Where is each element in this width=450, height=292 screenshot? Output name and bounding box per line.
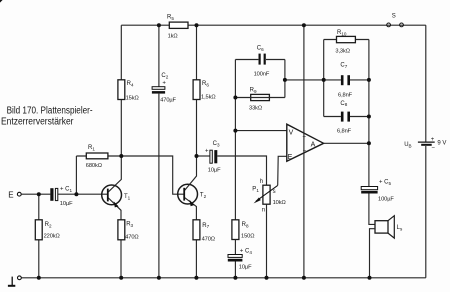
svg-text:s: s [273,189,276,195]
wire feedback network right rail [368,40,370,187]
wire C4 to ground [234,262,236,278]
svg-text:R6: R6 [202,81,209,87]
junction bottom rail R3 [119,276,123,280]
battery UB 9V [404,137,446,151]
junction R1 T1 collector node [119,154,123,158]
junction bottom rail R7 [194,276,198,280]
junction bottom rail speaker [368,276,372,280]
capacitor C1 [50,187,73,207]
junction top rail R6 [195,23,199,27]
svg-text:n: n [262,208,265,214]
capacitor C6 [254,46,270,78]
junction top rail supply [302,23,306,27]
potentiometer P1 [252,179,285,213]
transistor T1 [102,185,131,207]
svg-text:R10: R10 [337,30,347,36]
wire T2 base from T1 collector node [121,156,183,194]
wire R1 branch at node B1 [76,156,121,194]
resistor R7 [193,220,215,243]
wire C1 to T1 base [58,193,107,195]
svg-text:470µF: 470µF [160,98,176,104]
svg-text:h: h [260,179,263,185]
wire R4 / T1 collector rail [108,25,121,192]
junction E input R2 [37,192,41,196]
resistor R5 [167,15,188,40]
wire P1 wiper to op-amp inverting input [278,156,287,185]
resistor R3 [118,220,139,241]
svg-text:E: E [8,190,13,199]
terminal ground circle [18,276,22,280]
svg-text:A: A [311,142,316,149]
wire C5 to speaker upper stub [369,194,375,225]
svg-text:V: V [289,130,294,137]
junction bottom rail R2 [37,276,41,280]
wire R2 branch to ground [38,194,40,278]
wire bottom ground rail [21,277,425,279]
svg-text:+: + [205,149,209,155]
junction C6 R9 right node [283,78,287,82]
wire R8 to C4 [234,240,236,255]
wire op-amp output [324,142,369,144]
wire C3 left stub [197,155,210,157]
svg-text:E: E [288,154,293,161]
svg-text:100µF: 100µF [378,197,394,203]
wire C6 R9 left rail down to R8 [234,60,236,220]
svg-text:470Ω: 470Ω [125,235,138,241]
wire P1 n terminal to ground [266,204,268,278]
junction feedback left rail C7 [322,78,326,82]
svg-text:C2: C2 [161,73,168,79]
svg-text:C3: C3 [213,141,220,147]
svg-text:C6: C6 [257,46,264,52]
svg-text:+: + [431,137,435,143]
svg-text:470Ω: 470Ω [202,237,215,243]
caption Bild 170 [1,105,93,127]
svg-text:+ C4: + C4 [240,249,253,255]
wire op-amp supply line [303,25,305,278]
svg-text:R5: R5 [167,15,174,21]
svg-text:R7: R7 [202,223,209,229]
wire C6 branch [235,59,285,61]
resistor R8 [232,220,254,240]
wire T1 emitter to R3 to ground [108,198,121,278]
svg-text:Ls: Ls [397,225,403,231]
wire C6 R9 right rail [284,60,286,98]
capacitor C4 [228,249,253,271]
svg-text:+ C5: + C5 [379,179,392,185]
capacitor C8 [337,101,352,135]
capacitor C5 [361,179,394,202]
svg-text:10kΩ: 10kΩ [273,200,286,206]
svg-text:33kΩ: 33kΩ [249,105,262,111]
junction feedback right rail C8 [367,115,371,119]
junction op-amp output [367,141,371,145]
svg-text:UB: UB [404,142,411,148]
junction left rail V input [233,129,237,133]
wire right battery rail lower [425,146,427,278]
wire T2 emitter to R7 to ground [184,197,196,277]
svg-text:R4: R4 [127,81,134,87]
svg-text:3,3kΩ: 3,3kΩ [335,48,350,54]
junction C1 R1 T1 base [74,192,78,196]
junction bottom rail supply [302,276,306,280]
svg-text:10µF: 10µF [60,201,73,207]
svg-text:R3: R3 [126,222,133,228]
svg-text:Bild 170. Plattenspieler-: Bild 170. Plattenspieler- [7,105,93,116]
resistor R10 [335,30,355,54]
svg-text:1kΩ: 1kΩ [168,34,178,40]
wire C2 lower to ground [158,94,160,278]
svg-text:1,5kΩ: 1,5kΩ [201,94,216,100]
capacitor C7 [338,63,353,99]
junction top rail C2 [157,23,161,27]
svg-text:+: + [162,81,166,87]
terminal E input circle [17,192,21,196]
wire speaker lower stub to ground [370,229,376,278]
svg-text:−: − [303,148,307,155]
wire top supply rail [121,24,426,26]
svg-text:R2: R2 [45,222,52,228]
svg-text:150Ω: 150Ω [241,234,254,240]
wire op-amp non-inverting input [235,130,286,132]
svg-text:+ C1: + C1 [60,187,73,193]
svg-text:220kΩ: 220kΩ [44,234,60,240]
svg-text:100nF: 100nF [254,71,270,77]
wire C3 to P1 h terminal [217,156,266,185]
svg-text:R9: R9 [250,87,257,93]
wire R10 branch [324,39,369,41]
svg-text:P1: P1 [252,186,259,192]
capacitor C3 [205,141,221,174]
wire right battery rail upper [425,25,427,142]
wire C8 branch [324,116,369,118]
svg-text:R1: R1 [88,145,95,151]
svg-text:C8: C8 [340,101,347,107]
resistor R6 [193,80,215,101]
svg-text:S: S [392,14,396,20]
wire feedback network left rail [323,40,325,117]
ground symbol [8,277,15,287]
transistor T2 [178,184,207,206]
resistor R1 [86,145,108,169]
wire C2 branch [158,25,160,86]
svg-text:15kΩ: 15kΩ [126,95,139,101]
loudspeaker Ls [375,216,403,238]
resistor R4 [118,80,139,102]
capacitor C2 [152,73,177,104]
svg-text:680kΩ: 680kΩ [86,163,102,169]
svg-text:−: − [431,145,435,151]
junction C3 T2 collector node [195,154,199,158]
wire R6 / T2 collector rail [184,25,196,190]
junction bottom rail C4 [233,276,237,280]
resistor R9 [249,87,269,111]
wire input E to C1 [21,193,50,195]
svg-text:10µF: 10µF [208,168,221,174]
svg-text:6,8nF: 6,8nF [337,128,352,134]
switch S [387,14,404,27]
svg-text:6,8nF: 6,8nF [338,92,353,98]
scan corner mark [0,0,3,3]
junction left rail R9 [233,96,237,100]
svg-text:T2: T2 [200,192,207,198]
junction bottom rail C2 [157,276,161,280]
wire R9 branch [235,97,285,99]
svg-text:T1: T1 [124,194,131,200]
wire feedback node to C7 branch [285,79,341,81]
svg-text:R8: R8 [242,222,249,228]
junction feedback right rail C7 [367,78,371,82]
svg-text:C7: C7 [340,63,347,69]
junction bottom rail P1 [265,276,269,280]
op-amp A [287,124,324,161]
svg-text:Entzerrerverstärker: Entzerrerverstärker [1,116,74,127]
svg-text:9 V: 9 V [437,141,446,147]
resistor R2 [35,220,59,240]
svg-text:10µF: 10µF [239,264,252,270]
